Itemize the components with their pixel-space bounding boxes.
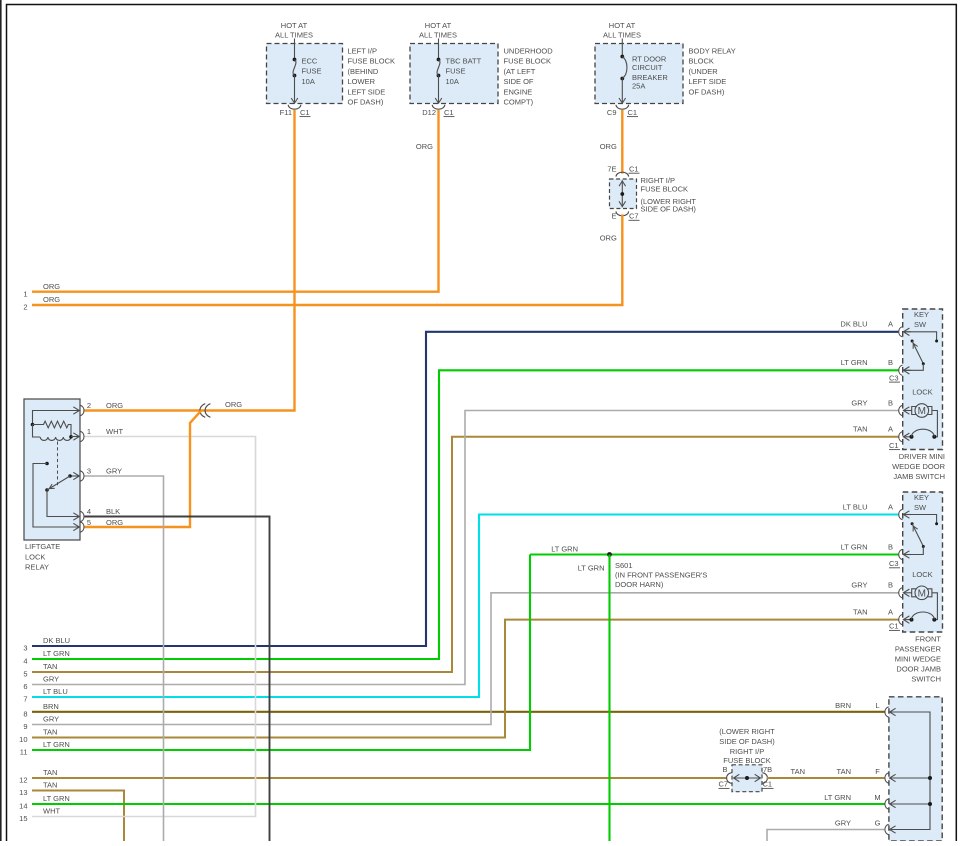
svg-text:WHT: WHT xyxy=(43,807,60,816)
svg-text:ORG: ORG xyxy=(225,400,242,409)
svg-text:BLOCK: BLOCK xyxy=(689,57,714,66)
wire BLK relay pin 4 down xyxy=(85,517,270,842)
svg-text:DRIVER MINI: DRIVER MINI xyxy=(899,452,945,461)
svg-text:7: 7 xyxy=(23,695,27,704)
wire LT GRN S601 splice run xyxy=(530,545,898,555)
svg-text:ORG: ORG xyxy=(43,282,60,291)
relay pin 3 terminal xyxy=(73,467,122,482)
svg-text:L: L xyxy=(875,701,879,710)
svg-text:GRY: GRY xyxy=(106,467,122,476)
svg-text:ORG: ORG xyxy=(106,518,123,527)
svg-text:ORG: ORG xyxy=(600,234,617,243)
label LEFT I/P FUSE BLOCK location xyxy=(348,47,396,107)
pin wire labels driver switch xyxy=(840,320,867,434)
svg-text:LEFT I/P: LEFT I/P xyxy=(348,47,377,56)
wire LT BLU circuit 7 xyxy=(23,515,898,704)
svg-text:3: 3 xyxy=(23,644,27,653)
fuse block box UNDERHOOD xyxy=(410,44,498,104)
wire TAN circuit 12 xyxy=(19,768,727,785)
front passenger door jamb switch title xyxy=(895,635,942,684)
wire ORG relay pin 2 to F11 fuse xyxy=(85,110,295,411)
svg-text:HOT AT: HOT AT xyxy=(425,21,452,30)
svg-text:LT GRN: LT GRN xyxy=(43,794,70,803)
front passenger door jamb switch lock jumper arc xyxy=(910,612,937,622)
svg-text:ENGINE: ENGINE xyxy=(504,87,533,96)
relay pin 4 terminal xyxy=(73,507,120,522)
svg-text:14: 14 xyxy=(19,802,27,811)
connector arcs B C7 and 7B C1 xyxy=(719,765,774,789)
svg-text:UNDERHOOD: UNDERHOOD xyxy=(504,47,554,56)
circuit breaker C9 RT DOOR 25A xyxy=(619,39,668,104)
svg-text:S601: S601 xyxy=(615,561,633,570)
module pin L xyxy=(835,701,895,717)
svg-text:OF DASH): OF DASH) xyxy=(689,87,725,96)
label RIGHT I/P FUSE BLOCK location xyxy=(641,176,697,214)
svg-text:C1: C1 xyxy=(300,108,310,117)
module pin M xyxy=(824,793,895,809)
module box bottom right xyxy=(889,697,942,841)
svg-text:11: 11 xyxy=(20,748,28,757)
svg-text:RIGHT I/P: RIGHT I/P xyxy=(730,747,764,756)
svg-text:GRY: GRY xyxy=(851,398,867,407)
svg-text:1: 1 xyxy=(87,427,91,436)
driver door jamb switch key switch pin B xyxy=(888,358,911,382)
power feed HOT AT ALL TIMES (middle) xyxy=(419,21,457,39)
svg-text:SIDE OF: SIDE OF xyxy=(504,77,534,86)
svg-text:HOT AT: HOT AT xyxy=(609,21,636,30)
svg-text:C1: C1 xyxy=(629,165,639,174)
svg-text:GRY: GRY xyxy=(43,715,59,724)
svg-text:DOOR JAMB: DOOR JAMB xyxy=(896,665,941,674)
svg-text:ECC: ECC xyxy=(302,57,318,66)
wire TAN circuit 13 xyxy=(19,781,124,841)
module pin F xyxy=(837,767,896,783)
driver door jamb switch lock motor pin A xyxy=(888,425,912,450)
relay actuator dashed link xyxy=(57,442,59,487)
relay label xyxy=(25,542,60,571)
svg-text:GRY: GRY xyxy=(851,581,867,590)
svg-text:SIDE OF DASH): SIDE OF DASH) xyxy=(719,737,775,746)
fuse block box LEFT I/P xyxy=(267,44,343,104)
svg-text:BODY RELAY: BODY RELAY xyxy=(689,47,736,56)
svg-text:A: A xyxy=(888,320,893,329)
svg-text:TAN: TAN xyxy=(43,781,57,790)
svg-text:ORG: ORG xyxy=(43,295,60,304)
svg-text:LT GRN: LT GRN xyxy=(43,740,70,749)
svg-text:TAN: TAN xyxy=(791,767,805,776)
svg-text:1: 1 xyxy=(23,289,27,298)
wire GRY relay pin 3 down xyxy=(85,476,164,841)
wire ORG relay pin 5 branch xyxy=(85,411,202,527)
svg-text:FUSE: FUSE xyxy=(446,67,466,76)
svg-text:PASSENGER: PASSENGER xyxy=(895,645,942,654)
svg-text:13: 13 xyxy=(19,788,27,797)
svg-text:FUSE BLOCK: FUSE BLOCK xyxy=(348,57,396,66)
front passenger door jamb switch key switch pin B xyxy=(888,542,911,568)
svg-text:DK BLU: DK BLU xyxy=(840,320,867,329)
svg-text:CIRCUIT: CIRCUIT xyxy=(632,63,663,72)
svg-text:C7: C7 xyxy=(719,780,729,789)
svg-text:HOT AT: HOT AT xyxy=(281,21,308,30)
svg-text:FUSE BLOCK: FUSE BLOCK xyxy=(504,57,552,66)
svg-text:LOCK: LOCK xyxy=(25,552,45,561)
svg-text:C1: C1 xyxy=(889,622,899,631)
wire GRY circuit 6 xyxy=(23,411,898,692)
svg-text:LT GRN: LT GRN xyxy=(841,542,868,551)
svg-text:MINI WEDGE: MINI WEDGE xyxy=(895,655,941,664)
svg-text:2: 2 xyxy=(87,401,91,410)
svg-text:DK BLU: DK BLU xyxy=(43,636,70,645)
svg-text:12: 12 xyxy=(19,776,27,785)
connector C1 pin F11 xyxy=(280,105,311,117)
front passenger door jamb switch key switch contacts xyxy=(904,515,938,555)
svg-text:F: F xyxy=(875,767,880,776)
svg-text:10A: 10A xyxy=(446,77,459,86)
switch box front passenger door jamb switch xyxy=(903,492,943,632)
svg-text:F11: F11 xyxy=(280,108,292,117)
svg-text:LOCK: LOCK xyxy=(912,570,932,579)
svg-text:(AT LEFT: (AT LEFT xyxy=(504,67,536,76)
svg-text:(UNDER: (UNDER xyxy=(689,67,719,76)
svg-text:SWITCH: SWITCH xyxy=(911,675,941,684)
svg-text:RELAY: RELAY xyxy=(25,563,49,572)
driver door jamb switch key switch contacts xyxy=(904,332,938,371)
connector C1 pin C9 xyxy=(607,105,638,117)
svg-text:ORG: ORG xyxy=(416,142,433,151)
fuse D12 TBC BATT FUSE 10A xyxy=(435,39,481,104)
svg-text:LOWER: LOWER xyxy=(348,77,376,86)
svg-text:C1: C1 xyxy=(889,441,899,450)
svg-text:25A: 25A xyxy=(632,82,645,91)
svg-text:7E: 7E xyxy=(607,165,616,174)
wire TAN after pass-through to pin F xyxy=(767,767,885,778)
svg-text:A: A xyxy=(888,425,893,434)
svg-text:ALL TIMES: ALL TIMES xyxy=(419,30,457,39)
svg-text:B: B xyxy=(888,542,893,551)
svg-text:C7: C7 xyxy=(629,212,639,221)
svg-text:ORG: ORG xyxy=(600,142,617,151)
svg-text:B: B xyxy=(722,765,727,774)
svg-text:C3: C3 xyxy=(889,559,899,568)
svg-text:ORG: ORG xyxy=(106,401,123,410)
svg-text:JAMB SWITCH: JAMB SWITCH xyxy=(893,472,945,481)
switch box driver door jamb switch xyxy=(903,309,943,450)
inline connector on ORG wire xyxy=(200,404,211,418)
front passenger door jamb switch KEY SW label xyxy=(914,493,929,512)
svg-text:(BEHIND: (BEHIND xyxy=(348,67,379,76)
svg-text:10A: 10A xyxy=(302,77,315,86)
svg-text:FUSE: FUSE xyxy=(302,67,322,76)
wire TAN circuit 10 xyxy=(19,620,898,745)
svg-text:LT GRN: LT GRN xyxy=(841,358,868,367)
driver door jamb switch title xyxy=(892,452,946,481)
svg-text:6: 6 xyxy=(23,682,27,691)
svg-text:COMPT): COMPT) xyxy=(504,98,534,107)
svg-text:DOOR HARN): DOOR HARN) xyxy=(615,580,664,589)
svg-text:FUSE BLOCK: FUSE BLOCK xyxy=(723,756,771,765)
relay pin 2 terminal xyxy=(73,401,123,416)
svg-text:GRY: GRY xyxy=(835,818,851,827)
svg-text:A: A xyxy=(888,607,893,616)
svg-text:7B: 7B xyxy=(763,765,772,774)
svg-text:FUSE BLOCK: FUSE BLOCK xyxy=(641,185,689,194)
svg-text:LEFT SIDE: LEFT SIDE xyxy=(348,87,386,96)
svg-text:3: 3 xyxy=(87,467,91,476)
wire TAN circuit 5 xyxy=(23,437,898,679)
wire GRY circuit 9 xyxy=(23,593,898,731)
connector C1 pin 7E xyxy=(607,165,639,177)
connector C1 pin D12 xyxy=(422,105,454,117)
svg-text:5: 5 xyxy=(87,518,91,527)
svg-text:KEY: KEY xyxy=(914,493,929,502)
driver door jamb switch KEY SW label xyxy=(914,310,929,329)
svg-text:10: 10 xyxy=(19,735,27,744)
svg-text:KEY: KEY xyxy=(914,310,929,319)
svg-text:LT GRN: LT GRN xyxy=(551,545,578,554)
svg-text:(LOWER RIGHT: (LOWER RIGHT xyxy=(719,727,775,736)
page edge line xyxy=(0,0,2,841)
svg-text:TBC BATT: TBC BATT xyxy=(446,57,482,66)
svg-text:FRONT: FRONT xyxy=(915,635,941,644)
svg-text:M: M xyxy=(918,406,926,417)
wire DK BLU circuit 3 xyxy=(23,332,898,653)
svg-text:BLK: BLK xyxy=(106,507,120,516)
svg-text:LT GRN: LT GRN xyxy=(824,793,851,802)
label RIGHT I/P FUSE BLOCK lower right xyxy=(719,727,775,765)
svg-text:B: B xyxy=(888,358,893,367)
svg-text:TAN: TAN xyxy=(853,607,867,616)
wire BRN circuit 8 xyxy=(23,702,884,719)
fuse block box BODY RELAY BLOCK xyxy=(595,44,683,104)
svg-text:E: E xyxy=(611,212,616,221)
svg-text:LT GRN: LT GRN xyxy=(43,649,70,658)
svg-text:B: B xyxy=(888,581,893,590)
svg-text:TAN: TAN xyxy=(43,728,57,737)
power feed HOT AT ALL TIMES (left) xyxy=(275,21,313,39)
svg-text:LT GRN: LT GRN xyxy=(578,564,605,573)
driver door jamb switch lock motor M xyxy=(912,404,938,437)
svg-text:D12: D12 xyxy=(422,108,436,117)
svg-text:WHT: WHT xyxy=(106,427,123,436)
svg-text:SW: SW xyxy=(914,320,927,329)
relay switch contacts xyxy=(33,462,79,527)
front passenger door jamb switch LOCK label xyxy=(912,570,932,579)
svg-text:WEDGE DOOR: WEDGE DOOR xyxy=(892,462,946,471)
relay box LIFTGATE LOCK RELAY xyxy=(24,399,80,540)
svg-text:ALL TIMES: ALL TIMES xyxy=(275,30,313,39)
svg-text:GRY: GRY xyxy=(43,675,59,684)
svg-text:TAN: TAN xyxy=(837,767,851,776)
pass-through element B to 7B xyxy=(733,774,760,781)
pass-through element 7E to E xyxy=(619,180,626,207)
connector C7 pin E xyxy=(611,211,639,220)
svg-text:C1: C1 xyxy=(628,108,638,117)
front passenger door jamb switch lock motor M xyxy=(912,586,938,620)
driver door jamb switch key switch pin A xyxy=(888,320,911,337)
svg-text:TAN: TAN xyxy=(43,662,57,671)
front passenger door jamb switch key switch pin A xyxy=(888,502,911,519)
right I/P fuse block pass-through box xyxy=(610,179,637,209)
svg-text:TAN: TAN xyxy=(43,768,57,777)
svg-text:LT BLU: LT BLU xyxy=(43,687,68,696)
power feed HOT AT ALL TIMES (right) xyxy=(603,21,641,39)
wire LT GRN circuit 11 xyxy=(20,555,530,757)
svg-text:OF DASH): OF DASH) xyxy=(348,98,384,107)
wire ORG from C9 to right I/P fuse block xyxy=(600,110,623,174)
wire ORG circuit 1 feed from TBC BATT fuse xyxy=(23,110,438,298)
svg-text:C9: C9 xyxy=(607,108,617,117)
front passenger door jamb switch lock motor pin A xyxy=(888,607,912,630)
driver door jamb switch LOCK label xyxy=(912,388,932,397)
svg-text:(IN FRONT PASSENGER'S: (IN FRONT PASSENGER'S xyxy=(615,571,707,580)
svg-text:ALL TIMES: ALL TIMES xyxy=(603,30,641,39)
module pin G xyxy=(835,818,896,834)
svg-text:15: 15 xyxy=(19,814,27,823)
svg-text:2: 2 xyxy=(23,303,27,312)
relay pin 5 terminal xyxy=(73,518,123,532)
svg-text:5: 5 xyxy=(23,670,27,679)
svg-text:M: M xyxy=(874,793,880,802)
svg-text:B: B xyxy=(888,398,893,407)
svg-text:4: 4 xyxy=(23,657,27,666)
relay pin 1 terminal xyxy=(73,427,123,442)
label BODY RELAY BLOCK location xyxy=(689,47,736,97)
svg-text:LIFTGATE: LIFTGATE xyxy=(25,542,60,551)
relay coil resistor parallel network xyxy=(31,411,80,441)
pin wire labels passenger switch xyxy=(841,502,868,616)
svg-text:C1: C1 xyxy=(763,780,773,789)
svg-text:TAN: TAN xyxy=(853,425,867,434)
svg-text:LT BLU: LT BLU xyxy=(843,502,868,511)
svg-text:9: 9 xyxy=(23,722,27,731)
svg-text:C1: C1 xyxy=(444,108,454,117)
svg-text:SIDE OF DASH): SIDE OF DASH) xyxy=(641,205,697,214)
pass-through box on TAN wire xyxy=(732,765,762,792)
wire LT GRN down from S601 xyxy=(578,555,610,842)
svg-text:A: A xyxy=(888,502,893,511)
svg-text:LEFT SIDE: LEFT SIDE xyxy=(689,77,727,86)
svg-text:G: G xyxy=(875,818,881,827)
splice S601 xyxy=(607,552,707,589)
svg-text:M: M xyxy=(918,588,926,599)
wire LT GRN circuit 14 xyxy=(19,794,884,811)
svg-text:4: 4 xyxy=(87,507,91,516)
svg-text:8: 8 xyxy=(23,710,27,719)
wire LT GRN circuit 4 xyxy=(23,370,898,665)
wire WHT circuit 15 from relay pin 1 xyxy=(19,437,255,824)
front passenger door jamb switch lock motor pin B xyxy=(888,581,912,598)
svg-text:LOCK: LOCK xyxy=(912,388,932,397)
label UNDERHOOD FUSE BLOCK location xyxy=(504,47,554,107)
svg-text:BRN: BRN xyxy=(835,701,851,710)
driver door jamb switch lock jumper arc xyxy=(910,429,937,439)
wire ORG circuit 2 feed from E C7 xyxy=(23,214,622,311)
svg-text:BRN: BRN xyxy=(43,702,59,711)
svg-text:SW: SW xyxy=(914,503,927,512)
wire GRY to module pin G xyxy=(767,830,885,842)
fuse F11 ECC FUSE 10A xyxy=(291,39,321,104)
svg-text:C3: C3 xyxy=(889,373,899,382)
module internal bus xyxy=(890,712,932,830)
driver door jamb switch lock motor pin B xyxy=(888,398,912,415)
